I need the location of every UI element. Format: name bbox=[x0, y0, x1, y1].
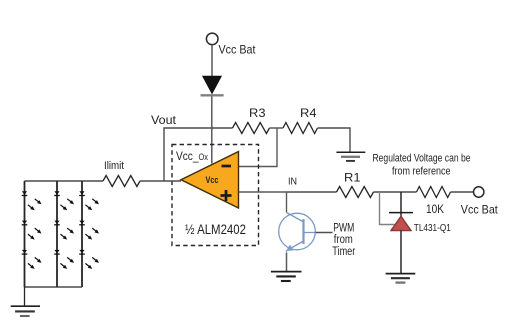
svg-text:Regulated Voltage can be: Regulated Voltage can be bbox=[373, 153, 471, 165]
wire R4 to ground bbox=[318, 128, 351, 152]
wire base lead to PWM label bbox=[316, 232, 333, 234]
wire TL431 cathode bbox=[400, 192, 402, 217]
wire R3 to R4 bbox=[270, 127, 284, 129]
LED string column 3 bbox=[81, 181, 83, 287]
ground (R4) bbox=[336, 152, 365, 161]
LED D13 bbox=[22, 250, 42, 269]
svg-text:TL431-Q1: TL431-Q1 bbox=[414, 223, 451, 234]
wire Vout horizontal bbox=[164, 128, 233, 181]
LED string column 2 bbox=[56, 181, 58, 287]
wire Ilimit to op-amp output bbox=[140, 180, 181, 182]
svg-text:IN: IN bbox=[288, 176, 297, 188]
wire Vcc vertical into op-amp supply bbox=[211, 97, 213, 164]
svg-text:Ox: Ox bbox=[199, 152, 209, 162]
wire collector drop bbox=[286, 192, 288, 213]
svg-text:Vcc: Vcc bbox=[206, 175, 219, 186]
svg-text:10K: 10K bbox=[426, 202, 444, 216]
wire 10K to terminal bbox=[451, 191, 474, 193]
svg-text:Vcc Bat: Vcc Bat bbox=[219, 43, 257, 57]
svg-text:from reference: from reference bbox=[392, 166, 451, 178]
LED D21 bbox=[54, 191, 74, 210]
ground (TL431) bbox=[386, 274, 416, 283]
wire R1 to TL431 node bbox=[374, 191, 417, 193]
LED D33 bbox=[79, 250, 99, 269]
svg-text:½ ALM2402: ½ ALM2402 bbox=[185, 221, 246, 237]
ground (transistor emitter) bbox=[271, 272, 302, 281]
svg-text:from: from bbox=[334, 234, 353, 246]
wire to LED ground bbox=[24, 287, 26, 306]
resistor 10K bbox=[417, 187, 451, 198]
svg-text:Vcc Bat: Vcc Bat bbox=[461, 203, 499, 217]
wire non-inverting input to IN node bbox=[239, 191, 287, 193]
wire emitter to ground bbox=[286, 253, 288, 272]
op-amp U1 (1/2 ALM2402) bbox=[181, 152, 239, 209]
svg-text:Vout: Vout bbox=[151, 113, 177, 127]
svg-text:PWM: PWM bbox=[333, 223, 354, 235]
terminal T2 (Vcc Bat right) bbox=[474, 187, 484, 197]
op-amp minus pin symbol bbox=[222, 165, 232, 168]
op-amp plus pin symbol bbox=[221, 190, 232, 201]
LED D23 bbox=[54, 250, 74, 269]
wire terminal to diode bbox=[211, 45, 213, 77]
LED D32 bbox=[79, 221, 99, 240]
diode D1 (series battery diode) bbox=[201, 76, 224, 95]
resistor R1 bbox=[337, 187, 374, 198]
resistor R4 bbox=[283, 123, 318, 134]
wire LED rail to Ilimit bbox=[25, 180, 104, 182]
svg-text:R1: R1 bbox=[344, 171, 361, 185]
LED D22 bbox=[54, 221, 74, 240]
wire TL431 anode to ground bbox=[400, 231, 402, 274]
LED bottom rail bbox=[25, 286, 83, 288]
resistor R3 bbox=[233, 123, 270, 134]
wire reference pin of TL431 bbox=[380, 192, 395, 225]
ground (LED string) bbox=[11, 306, 40, 316]
resistor Ilimit bbox=[103, 176, 140, 187]
terminal T1 (Vcc Bat top) bbox=[206, 33, 218, 45]
LED D31 bbox=[79, 191, 99, 210]
svg-text:Ilimit: Ilimit bbox=[104, 160, 124, 172]
LED D11 bbox=[22, 191, 42, 210]
wire feedback node to inverting input bbox=[239, 128, 277, 167]
LED D12 bbox=[22, 221, 42, 240]
dashed box (1/2 ALM2402) bbox=[172, 145, 259, 246]
TL431-Q1 shunt reference bbox=[389, 213, 413, 231]
wire IN node to R1 bbox=[287, 191, 337, 193]
svg-text:Timer: Timer bbox=[332, 246, 355, 258]
svg-text:R3: R3 bbox=[249, 106, 266, 120]
LED string column 1 bbox=[24, 181, 26, 287]
svg-text:Vcc_: Vcc_ bbox=[176, 151, 199, 163]
svg-text:R4: R4 bbox=[300, 106, 317, 120]
transistor Q1 (PWM switch) bbox=[279, 213, 316, 255]
